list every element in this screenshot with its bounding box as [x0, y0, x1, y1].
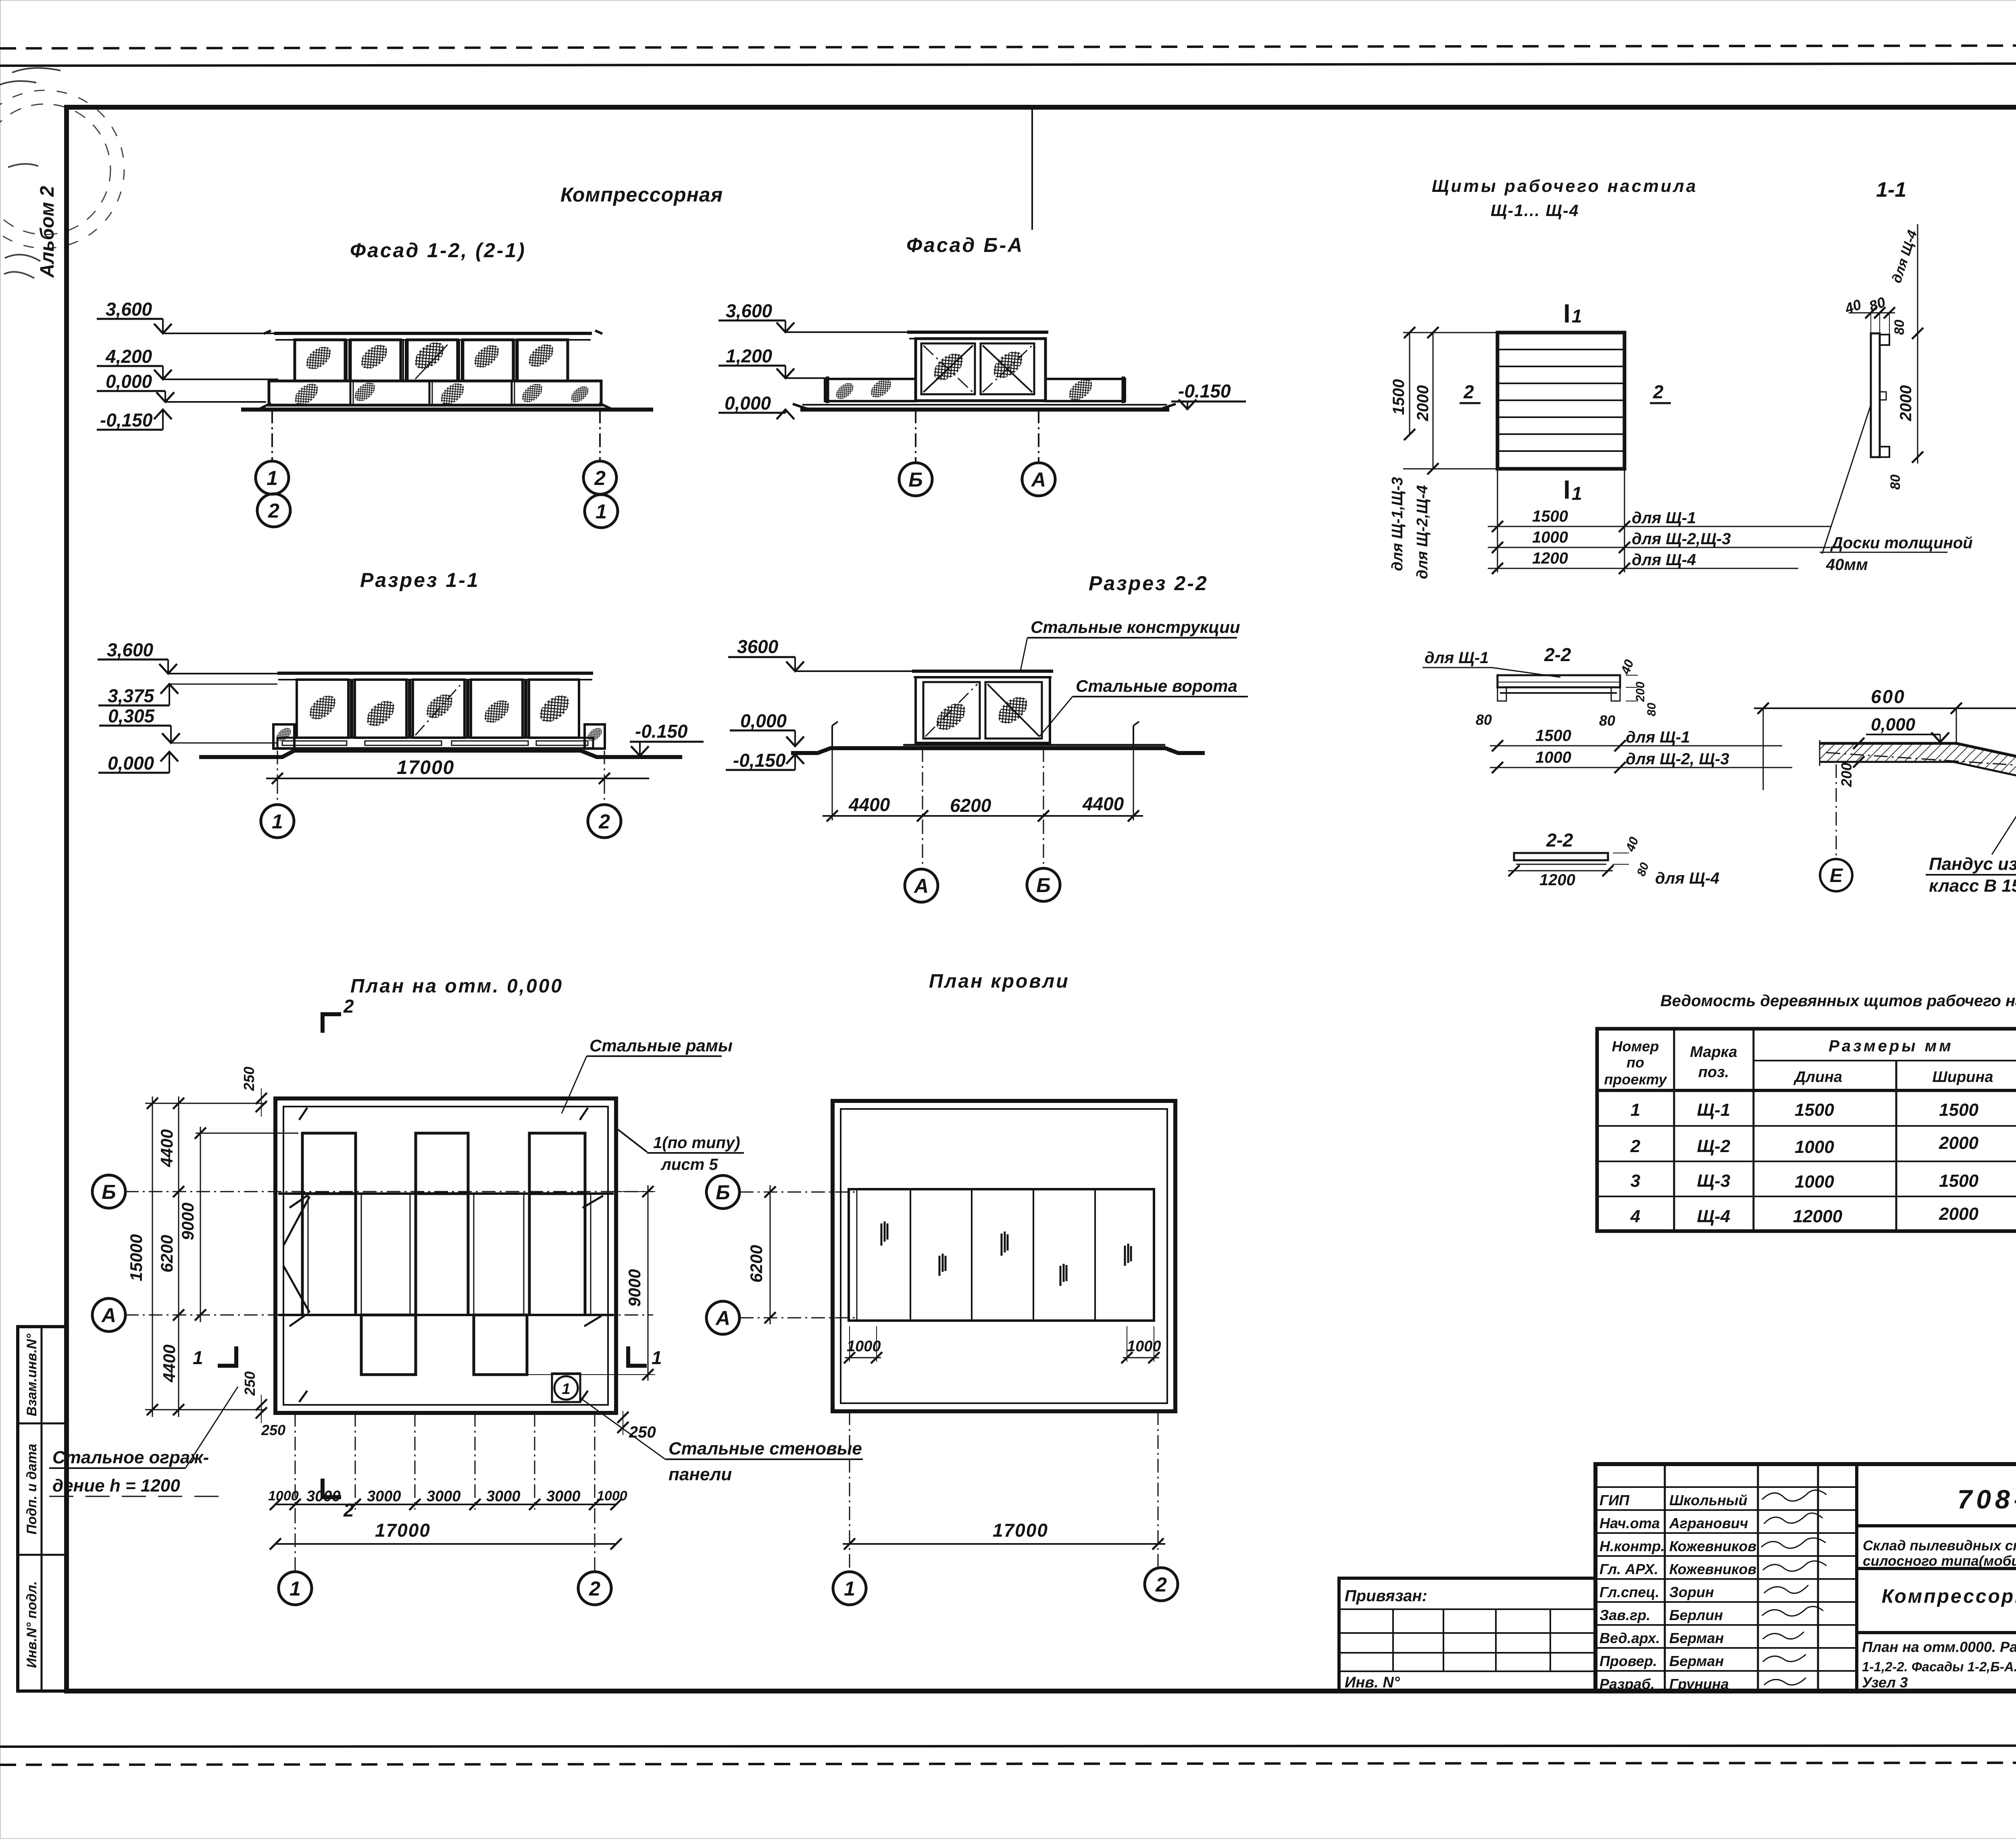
width dim rows	[1497, 469, 1498, 572]
svg-text:Н.контр.: Н.контр.	[1599, 1538, 1665, 1554]
svg-text:для Щ-1,Щ-3: для Щ-1,Щ-3	[1389, 477, 1406, 571]
svg-text:80: 80	[1645, 703, 1658, 716]
svg-text:А: А	[101, 1304, 116, 1327]
gate roof band	[907, 331, 1048, 334]
svg-text:40: 40	[1842, 296, 1864, 317]
svg-text:для Щ-1: для Щ-1	[1425, 649, 1489, 667]
svg-text:1: 1	[844, 1577, 855, 1600]
svg-text:4400: 4400	[848, 794, 890, 815]
tall dim line with labels	[1917, 224, 1918, 464]
svg-text:80: 80	[1599, 712, 1615, 729]
svg-text:для Щ-4: для Щ-4	[1889, 228, 1920, 285]
svg-text:1: 1	[267, 467, 278, 489]
grid axes Б А	[125, 1191, 653, 1192]
svg-text:Стальные стеновые: Стальные стеновые	[669, 1439, 862, 1458]
svg-text:250: 250	[629, 1423, 656, 1441]
17000 dim	[849, 1411, 850, 1571]
signatures	[1761, 1490, 1826, 1685]
svg-text:3000: 3000	[367, 1488, 401, 1505]
svg-text:3000: 3000	[306, 1488, 341, 1505]
svg-text:80: 80	[1476, 711, 1492, 728]
РАЗРЕЗ 2-2 drawing	[726, 618, 1248, 902]
svg-text:1500: 1500	[1939, 1171, 1979, 1191]
axes to circles	[295, 1510, 296, 1571]
svg-text:3,600: 3,600	[726, 300, 773, 321]
svg-text:для Щ-2,Щ-4: для Щ-2,Щ-4	[1414, 485, 1431, 579]
svg-text:А: А	[715, 1307, 730, 1329]
svg-text:4400: 4400	[157, 1129, 176, 1167]
svg-text:2000: 2000	[1939, 1204, 1979, 1224]
svg-text:А: А	[1031, 468, 1046, 491]
svg-text:250: 250	[242, 1371, 258, 1396]
svg-text:1: 1	[289, 1577, 301, 1600]
node marker 1	[552, 1373, 580, 1402]
section mark 2 top	[323, 1014, 341, 1033]
left margin column	[18, 186, 67, 1691]
dims 4400 6200 4400	[922, 748, 923, 820]
svg-text:Берман: Берман	[1669, 1653, 1724, 1669]
svg-text:Фасад 1-2, (2-1): Фасад 1-2, (2-1)	[350, 239, 526, 262]
svg-text:Вед.арх.: Вед.арх.	[1599, 1630, 1660, 1646]
ФАСАД Б-А drawing	[719, 300, 1246, 496]
svg-text:Зорин: Зорин	[1669, 1584, 1714, 1600]
svg-text:1: 1	[193, 1347, 203, 1368]
bottom band	[277, 738, 593, 748]
svg-text:Стальные конструкции: Стальные конструкции	[1031, 618, 1240, 637]
svg-text:Стальные ворота: Стальные ворота	[1076, 676, 1237, 695]
dim 17000	[277, 751, 278, 780]
svg-text:40мм: 40мм	[1826, 556, 1868, 574]
upper window panels	[295, 340, 345, 381]
svg-text:4400: 4400	[1082, 793, 1124, 814]
svg-text:1-1: 1-1	[1876, 178, 1906, 202]
hatch squiggles	[881, 1221, 887, 1246]
svg-text:1: 1	[272, 810, 283, 833]
svg-text:6200: 6200	[157, 1235, 176, 1272]
svg-text:Разраб.: Разраб.	[1599, 1676, 1655, 1692]
svg-text:3600: 3600	[737, 636, 779, 657]
svg-text:4400: 4400	[160, 1344, 179, 1382]
svg-text:Ширина: Ширина	[1933, 1069, 1993, 1086]
svg-text:4: 4	[1630, 1207, 1640, 1226]
svg-text:Фасад Б-А: Фасад Б-А	[906, 234, 1024, 256]
svg-text:1200: 1200	[1539, 871, 1575, 889]
circle Е	[1836, 764, 1837, 858]
svg-text:250: 250	[241, 1067, 257, 1091]
svg-text:1000: 1000	[597, 1488, 627, 1504]
svg-text:1000: 1000	[1795, 1137, 1834, 1157]
svg-text:для Щ-2,Щ-3: для Щ-2,Щ-3	[1632, 530, 1731, 548]
svg-text:Б: Б	[1036, 874, 1050, 897]
svg-text:3000: 3000	[546, 1488, 581, 1505]
svg-text:для Щ-4: для Щ-4	[1655, 870, 1719, 887]
svg-text:Ведомость деревянных щитов: Ведомость деревянных щитов рабочего наст…	[1660, 992, 2016, 1010]
svg-text:2: 2	[268, 499, 279, 522]
right area	[1857, 1524, 2016, 1527]
base slab	[903, 744, 1165, 746]
bottom solid line	[0, 1745, 2016, 1747]
svg-text:2: 2	[1630, 1136, 1641, 1156]
svg-text:силосного типа(мобильный)вмес: силосного типа(мобильный)вместимостью 0,…	[1863, 1553, 2016, 1569]
svg-text:0,000: 0,000	[1871, 715, 1916, 734]
TITLE BLOCK	[1595, 1464, 2016, 1692]
svg-text:Разрез 2-2: Разрез 2-2	[1089, 572, 1208, 595]
gate box	[916, 339, 1045, 401]
svg-text:Привязан:: Привязан:	[1345, 1587, 1427, 1605]
svg-text:Б: Б	[716, 1181, 730, 1204]
svg-text:0,305: 0,305	[108, 705, 155, 726]
svg-text:2000: 2000	[1939, 1133, 1979, 1153]
svg-text:17000: 17000	[397, 757, 454, 778]
svg-text:600: 600	[1871, 686, 1906, 707]
svg-text:Гл.спец.: Гл.спец.	[1599, 1584, 1659, 1600]
svg-text:Альбом 2: Альбом 2	[37, 186, 58, 278]
leader Доски толщиной 40мм	[1822, 405, 1871, 554]
svg-text:1,200: 1,200	[726, 345, 773, 366]
svg-text:Щ-2: Щ-2	[1697, 1136, 1731, 1156]
gate roof band	[912, 670, 1053, 673]
svg-text:лист 5: лист 5	[660, 1156, 718, 1173]
svg-text:1: 1	[1572, 483, 1582, 504]
svg-text:Пандус из бетона: Пандус из бетона	[1929, 854, 2016, 874]
axis 1/2 left	[271, 410, 273, 461]
svg-text:2-2: 2-2	[1546, 830, 1573, 851]
ground	[802, 404, 1167, 406]
top dims 600 1500	[1763, 708, 1764, 790]
svg-text:2: 2	[598, 810, 610, 833]
svg-text:План на отм.0000. Разрезы: План на отм.0000. Разрезы	[1862, 1639, 2016, 1655]
svg-text:3,375: 3,375	[108, 685, 155, 706]
circles А Б	[922, 820, 923, 869]
circles 1 2	[277, 780, 278, 805]
right 9000 dim	[617, 1191, 655, 1192]
svg-text:Нач.ота: Нач.ота	[1599, 1515, 1660, 1531]
svg-text:Щ-1... Щ-4: Щ-1... Щ-4	[1491, 201, 1579, 220]
ПЛАН на отм 0.000	[49, 996, 863, 1605]
svg-text:708-57.90-АР: 708-57.90-АР	[1958, 1484, 2016, 1514]
ЩИТ plan square	[1389, 304, 1831, 579]
svg-text:1000: 1000	[1532, 528, 1568, 546]
svg-text:Б: Б	[102, 1181, 116, 1203]
svg-text:Взам.инв.N°: Взам.инв.N°	[24, 1333, 40, 1416]
side walls	[825, 379, 916, 401]
svg-text:Инв. N°: Инв. N°	[1345, 1674, 1400, 1691]
ground	[199, 751, 682, 757]
svg-text:9000: 9000	[625, 1269, 644, 1306]
svg-text:2-2: 2-2	[1544, 644, 1571, 665]
svg-text:ГИП: ГИП	[1599, 1492, 1630, 1508]
ПЛАН КРОВЛИ	[706, 1101, 1178, 1605]
svg-text:Доски толщиной: Доски толщиной	[1830, 534, 1973, 552]
svg-text:1(по типу): 1(по типу)	[653, 1134, 740, 1152]
grid Б А	[740, 1192, 855, 1193]
svg-text:1000: 1000	[1535, 749, 1571, 766]
outer walls	[275, 1098, 616, 1413]
roof band	[274, 332, 592, 335]
svg-text:Стальные рамы: Стальные рамы	[589, 1036, 733, 1055]
svg-text:Грунина: Грунина	[1669, 1676, 1729, 1692]
svg-text:2: 2	[594, 467, 606, 489]
svg-text:2: 2	[1653, 381, 1664, 402]
roof panels band	[849, 1189, 1154, 1321]
svg-text:17000: 17000	[375, 1520, 431, 1541]
svg-text:Берман: Берман	[1669, 1630, 1724, 1646]
svg-text:4,200: 4,200	[105, 346, 152, 367]
svg-text:1500: 1500	[1939, 1100, 1979, 1120]
svg-text:2000: 2000	[1414, 385, 1432, 422]
17000 dim	[275, 1543, 616, 1545]
svg-text:0,000: 0,000	[740, 710, 787, 731]
top wavy copy edge	[0, 45, 2016, 48]
svg-text:Кожевников: Кожевников	[1669, 1561, 1756, 1577]
base row	[269, 381, 601, 405]
svg-text:А: А	[913, 875, 929, 897]
top solid line	[0, 63, 2016, 66]
svg-text:Щ-4: Щ-4	[1697, 1207, 1731, 1226]
svg-text:-0.150: -0.150	[1178, 381, 1231, 402]
svg-text:2: 2	[589, 1577, 600, 1600]
svg-text:3000: 3000	[427, 1488, 461, 1505]
svg-text:Разрез 1-1: Разрез 1-1	[360, 569, 480, 591]
svg-text:Кожевников: Кожевников	[1669, 1538, 1756, 1554]
slab edge markers	[831, 726, 833, 747]
svg-text:9000: 9000	[178, 1202, 197, 1240]
Привязан block	[1339, 1578, 1595, 1691]
channel section 1-1 (planks 40mm)	[1820, 224, 1973, 574]
panels with mullions	[297, 680, 348, 738]
svg-text:для Щ-2, Щ-3: для Щ-2, Щ-3	[1626, 750, 1729, 768]
svg-text:Щ-1: Щ-1	[1697, 1100, 1731, 1120]
svg-text:-0.150: -0.150	[635, 721, 688, 742]
roof band	[277, 672, 593, 675]
svg-text:2: 2	[1463, 381, 1474, 402]
svg-text:Подп. и дата: Подп. и дата	[24, 1444, 40, 1534]
6200 dim	[770, 1185, 771, 1324]
2-2 section lower	[1508, 830, 1719, 889]
svg-text:15000: 15000	[127, 1234, 146, 1281]
svg-text:панели: панели	[669, 1465, 732, 1484]
2-2 section upper	[1422, 644, 1792, 773]
svg-text:проекту: проекту	[1604, 1071, 1667, 1088]
svg-text:3: 3	[1631, 1171, 1640, 1191]
svg-text:3,600: 3,600	[107, 639, 154, 660]
svg-text:Компрессорная: Компрессорная	[1882, 1586, 2016, 1607]
svg-text:Зав.гр.: Зав.гр.	[1599, 1607, 1650, 1623]
svg-text:250: 250	[261, 1422, 285, 1438]
svg-text:1000: 1000	[1795, 1172, 1834, 1192]
section mark 2 bottom	[323, 1479, 341, 1497]
faint fold line	[1031, 108, 1033, 230]
svg-text:1-1,2-2. Фасады 1-2,Б-А.План к: 1-1,2-2. Фасады 1-2,Б-А.План кровли	[1862, 1659, 2016, 1674]
corner braces	[283, 1196, 310, 1246]
svg-text:2: 2	[343, 1500, 354, 1521]
vertical cell walls	[301, 1194, 304, 1315]
svg-text:-0,150: -0,150	[100, 410, 153, 431]
left dims	[145, 1103, 266, 1104]
svg-text:дение h = 1200: дение h = 1200	[52, 1476, 180, 1496]
faint corner stamp	[0, 68, 124, 278]
svg-text:Номер: Номер	[1612, 1038, 1659, 1055]
svg-text:Компрессорная: Компрессорная	[560, 183, 723, 206]
svg-text:1: 1	[1631, 1100, 1640, 1120]
svg-text:План на отм. 0,000: План на отм. 0,000	[350, 976, 563, 997]
end piers	[273, 724, 294, 749]
bottom dim chain	[295, 1413, 296, 1510]
ВЕДОМОСТЬ table	[1597, 1029, 2016, 1231]
svg-text:План кровли: План кровли	[929, 971, 1070, 992]
svg-text:2: 2	[343, 996, 354, 1017]
svg-text:Берлин: Берлин	[1669, 1607, 1723, 1623]
svg-text:Узел 3: Узел 3	[1862, 1674, 1908, 1691]
svg-text:1: 1	[596, 500, 607, 523]
svg-text:Агранович: Агранович	[1669, 1515, 1748, 1531]
svg-text:1000: 1000	[847, 1338, 881, 1355]
section marks 1	[1565, 304, 1569, 322]
svg-text:Инв.N° подл.: Инв.N° подл.	[24, 1581, 40, 1668]
svg-text:Школьный: Школьный	[1669, 1492, 1747, 1508]
svg-text:Е: Е	[1830, 865, 1843, 886]
bottom fingers	[361, 1315, 416, 1375]
axis walls	[278, 1192, 614, 1195]
svg-text:40: 40	[1618, 657, 1636, 676]
svg-text:2: 2	[1155, 1573, 1167, 1596]
ФАСАД 1-2 drawing	[97, 299, 653, 528]
svg-text:200: 200	[1634, 682, 1647, 702]
svg-text:поз.: поз.	[1698, 1064, 1729, 1081]
svg-text:1200: 1200	[1532, 549, 1568, 567]
svg-text:Провер.: Провер.	[1599, 1653, 1657, 1669]
ramp slab hatched	[1820, 743, 2016, 785]
svg-text:17000: 17000	[993, 1520, 1048, 1541]
svg-text:Гл. АРХ.: Гл. АРХ.	[1599, 1561, 1658, 1577]
svg-text:1000: 1000	[268, 1488, 299, 1504]
svg-text:80: 80	[1867, 293, 1888, 314]
svg-text:6200: 6200	[747, 1245, 766, 1282]
svg-text:12000: 12000	[1793, 1207, 1843, 1226]
svg-text:Стальное ограж-: Стальное ограж-	[52, 1448, 209, 1467]
label Пандус	[1992, 782, 2016, 855]
svg-text:класс В 15: класс В 15	[1929, 876, 2016, 896]
svg-text:3000: 3000	[486, 1488, 521, 1505]
ground line	[241, 408, 653, 412]
svg-text:80: 80	[1888, 474, 1903, 490]
axes	[915, 410, 916, 463]
svg-text:Щиты рабочего настила: Щиты рабочего настила	[1432, 177, 1698, 196]
svg-text:0,000: 0,000	[725, 393, 771, 414]
svg-text:2000: 2000	[1897, 385, 1915, 422]
gate box	[916, 677, 1050, 743]
svg-text:-0,150: -0,150	[733, 750, 786, 771]
svg-text:Размеры мм: Размеры мм	[1829, 1037, 1954, 1055]
left vertical dims 1500 2000	[1409, 333, 1410, 435]
svg-text:200: 200	[1838, 763, 1855, 787]
svg-text:Марка: Марка	[1690, 1044, 1737, 1061]
svg-text:80: 80	[1635, 861, 1652, 878]
bottom wavy copy edge	[0, 1762, 2016, 1765]
svg-text:по: по	[1627, 1054, 1644, 1071]
svg-text:для Щ-1: для Щ-1	[1632, 509, 1696, 527]
svg-text:1500: 1500	[1795, 1100, 1834, 1120]
РАЗРЕЗ 1-1 drawing	[98, 639, 704, 838]
ramp detail node 3	[1754, 643, 2016, 896]
svg-text:3,600: 3,600	[106, 299, 152, 320]
axis 2/1 right	[599, 410, 601, 461]
svg-text:1: 1	[1572, 306, 1582, 327]
svg-text:6200: 6200	[950, 795, 991, 816]
svg-text:Б: Б	[908, 468, 923, 491]
svg-text:Склад пылевидных строительны: Склад пылевидных строительных материалов…	[1863, 1538, 2016, 1554]
top fingers	[302, 1133, 356, 1194]
svg-text:40: 40	[1622, 835, 1641, 854]
svg-text:1: 1	[562, 1381, 570, 1398]
svg-text:для Щ-1: для Щ-1	[1626, 728, 1690, 746]
svg-text:Длина: Длина	[1793, 1069, 1842, 1086]
svg-text:0,000: 0,000	[108, 753, 154, 774]
svg-text:80: 80	[1892, 320, 1907, 335]
svg-text:Щ-3: Щ-3	[1697, 1171, 1731, 1191]
svg-text:для Щ-4: для Щ-4	[1632, 551, 1696, 569]
svg-text:0,000: 0,000	[106, 371, 152, 392]
ground	[791, 748, 1205, 753]
svg-text:1500: 1500	[1390, 379, 1408, 415]
svg-text:1500: 1500	[1532, 508, 1568, 525]
svg-text:1500: 1500	[1535, 727, 1571, 745]
svg-text:1: 1	[652, 1347, 662, 1368]
